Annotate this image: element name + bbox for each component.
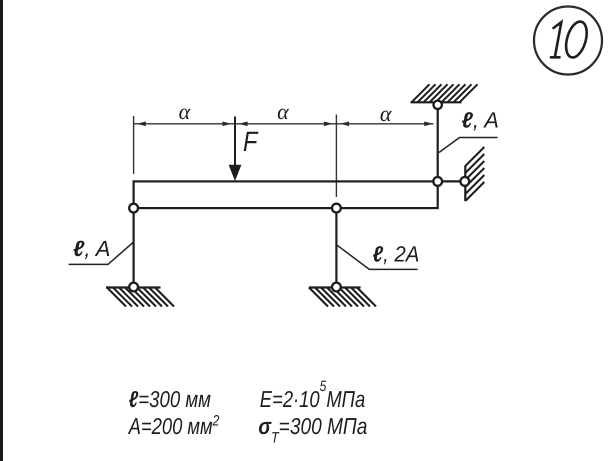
svg-text:α: α [277,99,289,124]
svg-text:ℓ, 2A: ℓ, 2A [373,242,420,267]
svg-text:α: α [380,101,392,126]
svg-text:α: α [179,99,191,124]
svg-text:F: F [243,126,259,157]
svg-text:ℓ=300 мм: ℓ=300 мм [129,386,211,412]
svg-text:A=200 мм2: A=200 мм2 [127,413,220,440]
svg-text:ℓ, A: ℓ, A [73,236,110,261]
svg-text:ℓ, A: ℓ, A [462,108,499,133]
